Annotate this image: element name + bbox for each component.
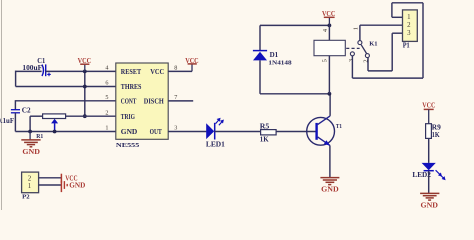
svg-text:1: 1 — [353, 27, 360, 30]
LED1 — [206, 118, 225, 149]
svg-text:VCC: VCC — [185, 56, 199, 65]
ground (under LED2) — [420, 193, 439, 209]
svg-text:P2: P2 — [22, 194, 30, 201]
node collector junction — [328, 92, 332, 96]
ground (under R1) — [21, 132, 40, 156]
wire switch pin2 to P1 pin3 — [368, 33, 403, 71]
wire pin7 stub — [168, 100, 193, 102]
wire — [84, 71, 86, 116]
potentiometer R1 — [36, 114, 65, 140]
svg-text:5: 5 — [322, 59, 329, 62]
svg-text:7: 7 — [174, 94, 177, 101]
svg-text:R5: R5 — [260, 122, 270, 130]
svg-text:2: 2 — [28, 176, 32, 183]
svg-text:TRIG: TRIG — [121, 112, 135, 121]
power VCC (LED2 branch) — [422, 101, 435, 124]
svg-text:GND: GND — [321, 185, 339, 194]
svg-text:1K: 1K — [260, 135, 269, 143]
wire (diode anode row) — [260, 93, 330, 95]
svg-text:VCC: VCC — [78, 56, 92, 65]
svg-text:GND: GND — [69, 182, 85, 190]
svg-text:RESET: RESET — [121, 67, 142, 76]
svg-text:1: 1 — [407, 14, 411, 21]
svg-text:GND: GND — [22, 147, 40, 156]
svg-text:DISCH: DISCH — [144, 96, 164, 105]
svg-text:GND: GND — [421, 200, 439, 209]
svg-text:1N4148: 1N4148 — [268, 60, 292, 67]
wire — [46, 70, 116, 72]
wire — [16, 86, 116, 88]
svg-text:5: 5 — [105, 94, 108, 101]
wire — [214, 131, 260, 133]
wire top (VCC to coil/diode) — [260, 24, 329, 26]
svg-text:3: 3 — [407, 30, 411, 37]
svg-text:GND: GND — [121, 127, 138, 136]
wire — [15, 131, 115, 133]
node TRIG junction — [83, 114, 87, 118]
relay K1 actuation dashes — [346, 47, 359, 49]
svg-text:D1: D1 — [270, 51, 279, 59]
power VCC (P2, rotated) — [61, 174, 77, 183]
wire — [30, 115, 42, 117]
connector P1 — [403, 10, 418, 50]
wire — [428, 138, 430, 163]
svg-text:CONT: CONT — [121, 96, 137, 105]
svg-text:0.1uF: 0.1uF — [0, 117, 14, 125]
LED2 — [412, 163, 445, 180]
wire switch pin1 to P1 pin2 — [360, 25, 403, 41]
ground (under T1) — [320, 178, 339, 194]
power VCC (left) — [78, 56, 92, 72]
svg-text:P1: P1 — [403, 43, 411, 50]
node GND row junction (R1 ground) — [28, 130, 32, 134]
wire P2 pin1 — [39, 184, 62, 186]
sheet edge — [1, 0, 3, 210]
svg-text:C2: C2 — [22, 107, 31, 115]
wire — [428, 171, 430, 194]
svg-text:1K: 1K — [432, 131, 440, 139]
resistor R9 — [426, 123, 442, 139]
svg-text:100uF: 100uF — [22, 63, 42, 72]
svg-text:OUT: OUT — [150, 127, 163, 136]
connector P2 — [22, 172, 39, 201]
node VCC-RESET junction — [83, 70, 87, 74]
svg-text:THRES: THRES — [121, 82, 142, 91]
svg-text:R9: R9 — [432, 123, 442, 131]
svg-text:1: 1 — [105, 125, 108, 132]
svg-text:K1: K1 — [369, 40, 377, 47]
svg-text:8: 8 — [174, 64, 177, 71]
wire — [15, 71, 17, 87]
wire switch pin3 to P1 pin1 — [352, 3, 423, 78]
wire — [15, 100, 115, 102]
svg-text:2: 2 — [105, 109, 108, 116]
relay K1 coil — [314, 25, 378, 93]
wire — [66, 115, 116, 117]
diode D1 1N4148 — [253, 25, 292, 93]
node THRES junction — [83, 85, 87, 89]
wire emitter — [329, 145, 331, 177]
power GND (P2, rotated) — [61, 181, 85, 193]
svg-text:T1: T1 — [336, 123, 342, 130]
svg-text:LED1: LED1 — [206, 140, 225, 149]
svg-text:NE555: NE555 — [116, 142, 140, 149]
node wiper junction — [53, 130, 57, 134]
node coil-VCC junction — [328, 24, 332, 28]
transistor T1 — [307, 116, 342, 146]
svg-text:6: 6 — [105, 80, 108, 87]
wire P2 pin2 — [39, 177, 62, 179]
capacitor C1 — [22, 57, 50, 76]
svg-text:VCC: VCC — [422, 101, 435, 110]
resistor R5 — [260, 122, 276, 143]
svg-text:1: 1 — [28, 183, 32, 190]
capacitor C2 — [0, 100, 31, 131]
wire collector — [329, 94, 331, 116]
svg-text:R1: R1 — [36, 133, 43, 140]
power VCC (relay) — [322, 9, 335, 26]
svg-text:VCC: VCC — [150, 67, 164, 76]
svg-text:3: 3 — [174, 125, 177, 132]
svg-text:4: 4 — [105, 65, 108, 72]
relay K1 switch — [348, 27, 369, 63]
svg-text:VCC: VCC — [322, 9, 335, 18]
wire — [276, 131, 316, 133]
svg-text:2: 2 — [407, 22, 411, 29]
IC NE555 timer — [116, 63, 168, 149]
wire — [16, 70, 42, 72]
wire pin8 — [168, 70, 192, 72]
wire — [29, 116, 31, 131]
power VCC (chip pin 8) — [185, 56, 199, 72]
wire pin3 OUT — [168, 131, 206, 133]
